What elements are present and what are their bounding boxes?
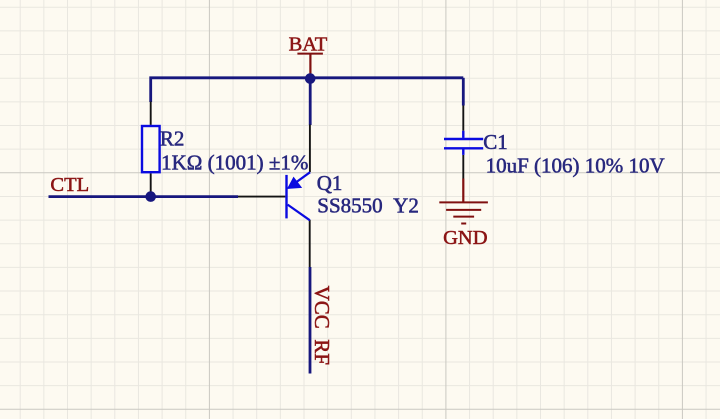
- collector line: [288, 205, 310, 221]
- bottom plate lead stub: [462, 150, 464, 155]
- gnd bar 3: [453, 216, 474, 218]
- power port BAT: [289, 33, 328, 74]
- emitter arrowhead: [288, 178, 301, 189]
- gnd bar 2: [446, 209, 481, 211]
- svg-text:GND: GND: [443, 227, 487, 249]
- pin 1 of C1 (top): [462, 106, 464, 131]
- base bar: [285, 175, 287, 219]
- svg-text:R2: R2: [160, 127, 185, 151]
- wire: vertical from BAT junction down to Q1 emitter pin: [309, 78, 312, 125]
- gnd bar 4: [461, 223, 466, 225]
- gnd bar 1: [439, 201, 488, 203]
- wire: CTL horizontal to Q1 base: [49, 195, 239, 198]
- top plate lead stub: [462, 131, 464, 138]
- emitter pin: [309, 125, 311, 173]
- capacitor C1: [444, 106, 665, 179]
- collector pin: [309, 220, 311, 267]
- svg-text:BAT: BAT: [289, 33, 328, 55]
- resistor R2: [142, 102, 308, 197]
- junction: CTL / R2 node: [145, 191, 156, 202]
- transistor Q1: [238, 125, 419, 268]
- top plate: [444, 138, 483, 140]
- svg-text:SS8550 Y2: SS8550 Y2: [317, 194, 419, 218]
- wire: Q1 collector down to VCC RF net: [309, 267, 312, 374]
- base pin: [238, 196, 285, 198]
- pin 2 of C1 (bottom): [462, 155, 464, 179]
- svg-text:1KΩ (1001) ±1%: 1KΩ (1001) ±1%: [161, 151, 308, 175]
- emitter line: [288, 172, 310, 188]
- body of R2: [142, 126, 160, 172]
- svg-text:CTL: CTL: [50, 174, 89, 196]
- power port GND: [439, 179, 488, 250]
- wire: top horizontal BAT rail from R2 to C1: [151, 78, 464, 102]
- pin 1 of R2 (top): [150, 102, 152, 125]
- svg-text:Q1: Q1: [317, 171, 343, 195]
- junction: BAT node: [305, 73, 316, 84]
- gnd lead: [462, 179, 464, 203]
- svg-text:C1: C1: [483, 130, 508, 154]
- bottom plate: [444, 147, 483, 149]
- pin 2 of R2 (bottom): [150, 173, 152, 196]
- svg-text:10uF (106) 10% 10V: 10uF (106) 10% 10V: [486, 154, 665, 178]
- svg-text:VCC RF: VCC RF: [310, 286, 334, 365]
- wire: C1 top vertical segment: [462, 78, 465, 106]
